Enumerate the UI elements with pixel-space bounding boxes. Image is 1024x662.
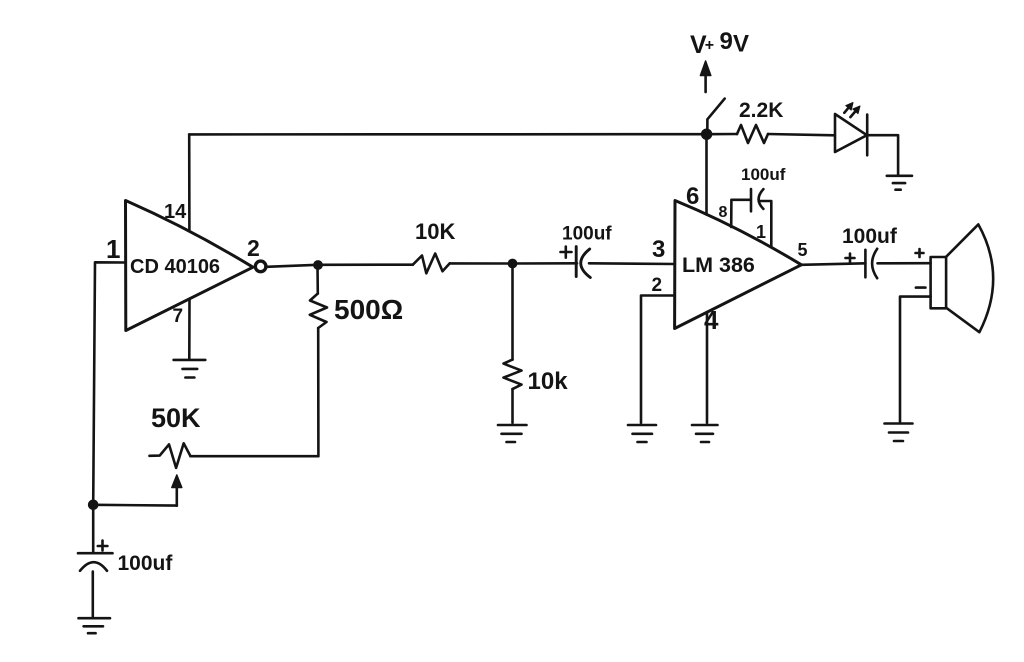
inverter U1 CD40106 body bbox=[126, 201, 254, 331]
junction dot node B bbox=[509, 260, 516, 267]
wire U2 pin 4 to ground bbox=[706, 312, 709, 423]
wire R1 to node B bbox=[450, 262, 513, 265]
svg-text:14: 14 bbox=[164, 201, 187, 223]
svg-text:1: 1 bbox=[756, 222, 766, 242]
resistor R1 10K bbox=[413, 254, 450, 274]
ground U2 pin 4 bbox=[692, 425, 718, 442]
ground LED D1 bbox=[887, 176, 912, 190]
svg-text:LM 386: LM 386 bbox=[682, 253, 755, 277]
junction dot node A bbox=[314, 261, 321, 268]
svg-text:100uf: 100uf bbox=[741, 165, 786, 184]
resistor R5 10k bbox=[504, 360, 522, 390]
ground R5 bbox=[498, 425, 527, 442]
svg-text:2: 2 bbox=[652, 275, 663, 296]
wire U2 pin 2 to ground bbox=[641, 296, 675, 423]
LED D1 cathode bar bbox=[866, 115, 869, 156]
label speaker minus bbox=[916, 286, 926, 289]
svg-text:CD 40106: CD 40106 bbox=[130, 256, 220, 278]
svg-text:6: 6 bbox=[686, 183, 699, 210]
svg-text:10K: 10K bbox=[415, 219, 455, 244]
svg-text:1: 1 bbox=[106, 234, 120, 264]
switch SW1 bbox=[707, 99, 724, 134]
svg-text:2: 2 bbox=[247, 235, 260, 261]
junction dot feedback node bbox=[89, 501, 97, 509]
wire pin 7 stub bbox=[188, 299, 191, 360]
speaker LS1 bbox=[931, 257, 947, 308]
svg-text:500Ω: 500Ω bbox=[334, 294, 403, 325]
wire pin 14 riser bbox=[188, 134, 191, 231]
wire speaker to ground bbox=[900, 297, 931, 422]
wire C2 to U2 pin 3 bbox=[589, 262, 675, 265]
wire node A to R1 bbox=[318, 263, 413, 266]
svg-text:2.2K: 2.2K bbox=[739, 99, 783, 122]
supply arrow bbox=[704, 68, 707, 92]
wire node B to C2 bbox=[513, 262, 578, 265]
svg-text:8: 8 bbox=[719, 204, 728, 221]
resistor R3 500ohm bbox=[310, 294, 327, 329]
wire wiper to feedback node bbox=[93, 503, 177, 506]
wire LED D1 to ground bbox=[867, 135, 898, 174]
label speaker plus bbox=[916, 249, 924, 257]
output bubble U1 pin 2 bbox=[255, 261, 266, 272]
wire C1 to ground bbox=[92, 572, 95, 618]
wire feedback node to C1 bbox=[92, 505, 95, 553]
wire R3 to potentiometer R4 bbox=[191, 328, 319, 456]
svg-text:100uf: 100uf bbox=[842, 225, 898, 248]
svg-text:5: 5 bbox=[798, 240, 808, 260]
LED D1 body bbox=[835, 114, 867, 152]
svg-text:100uf: 100uf bbox=[118, 552, 174, 575]
capacitor C3 100uf bbox=[751, 189, 763, 211]
wire V+ node to R2 bbox=[707, 133, 737, 136]
potentiometer R4 wiper arrow bbox=[176, 486, 179, 506]
wire R2 to LED D1 bbox=[768, 134, 835, 135]
wire U2 pin 5 to C4 bbox=[801, 263, 865, 265]
ground U1 pin 7 bbox=[174, 360, 206, 378]
capacitor C1 100uf plus sign bbox=[98, 541, 108, 551]
wire C4 to speaker bbox=[878, 262, 931, 265]
capacitor C4 100uf plus sign bbox=[846, 254, 855, 263]
junction dot V+ node bbox=[702, 130, 711, 139]
svg-text:100uf: 100uf bbox=[562, 224, 612, 245]
svg-text:3: 3 bbox=[652, 236, 665, 263]
wire U1 output to node A bbox=[267, 265, 318, 267]
amplifier U2 LM386 body bbox=[675, 201, 802, 329]
ground speaker bbox=[885, 424, 913, 442]
svg-text:10k: 10k bbox=[528, 368, 569, 395]
wire C3 to U2 pin 1 bbox=[760, 201, 772, 247]
capacitor C4 100uf bbox=[865, 249, 877, 278]
capacitor C2 100uf bbox=[576, 247, 590, 278]
potentiometer R4 50K bbox=[150, 443, 191, 468]
svg-text:+: + bbox=[705, 37, 714, 54]
wire U2 pin 6 riser bbox=[705, 134, 708, 214]
wire top feedback rail bbox=[189, 133, 706, 136]
ground U2 pin 2 bbox=[628, 425, 656, 442]
wire U2 pin 8 to C3 bbox=[731, 200, 749, 227]
wire pin 1 from left rail bbox=[93, 262, 125, 505]
svg-text:9: 9 bbox=[720, 28, 733, 55]
wire node B to R5 bbox=[511, 264, 514, 360]
wire R5 to ground bbox=[511, 389, 514, 423]
svg-text:V: V bbox=[733, 31, 749, 58]
svg-text:50K: 50K bbox=[151, 403, 201, 433]
resistor R2 2.2K bbox=[737, 125, 768, 143]
ground C1 bbox=[79, 618, 111, 633]
svg-text:7: 7 bbox=[173, 306, 184, 327]
capacitor C1 100uf bbox=[78, 553, 113, 571]
wire node A to R3 bbox=[316, 265, 319, 294]
capacitor C2 100uf plus sign bbox=[561, 247, 572, 258]
LED D1 light arrows bbox=[844, 107, 849, 113]
